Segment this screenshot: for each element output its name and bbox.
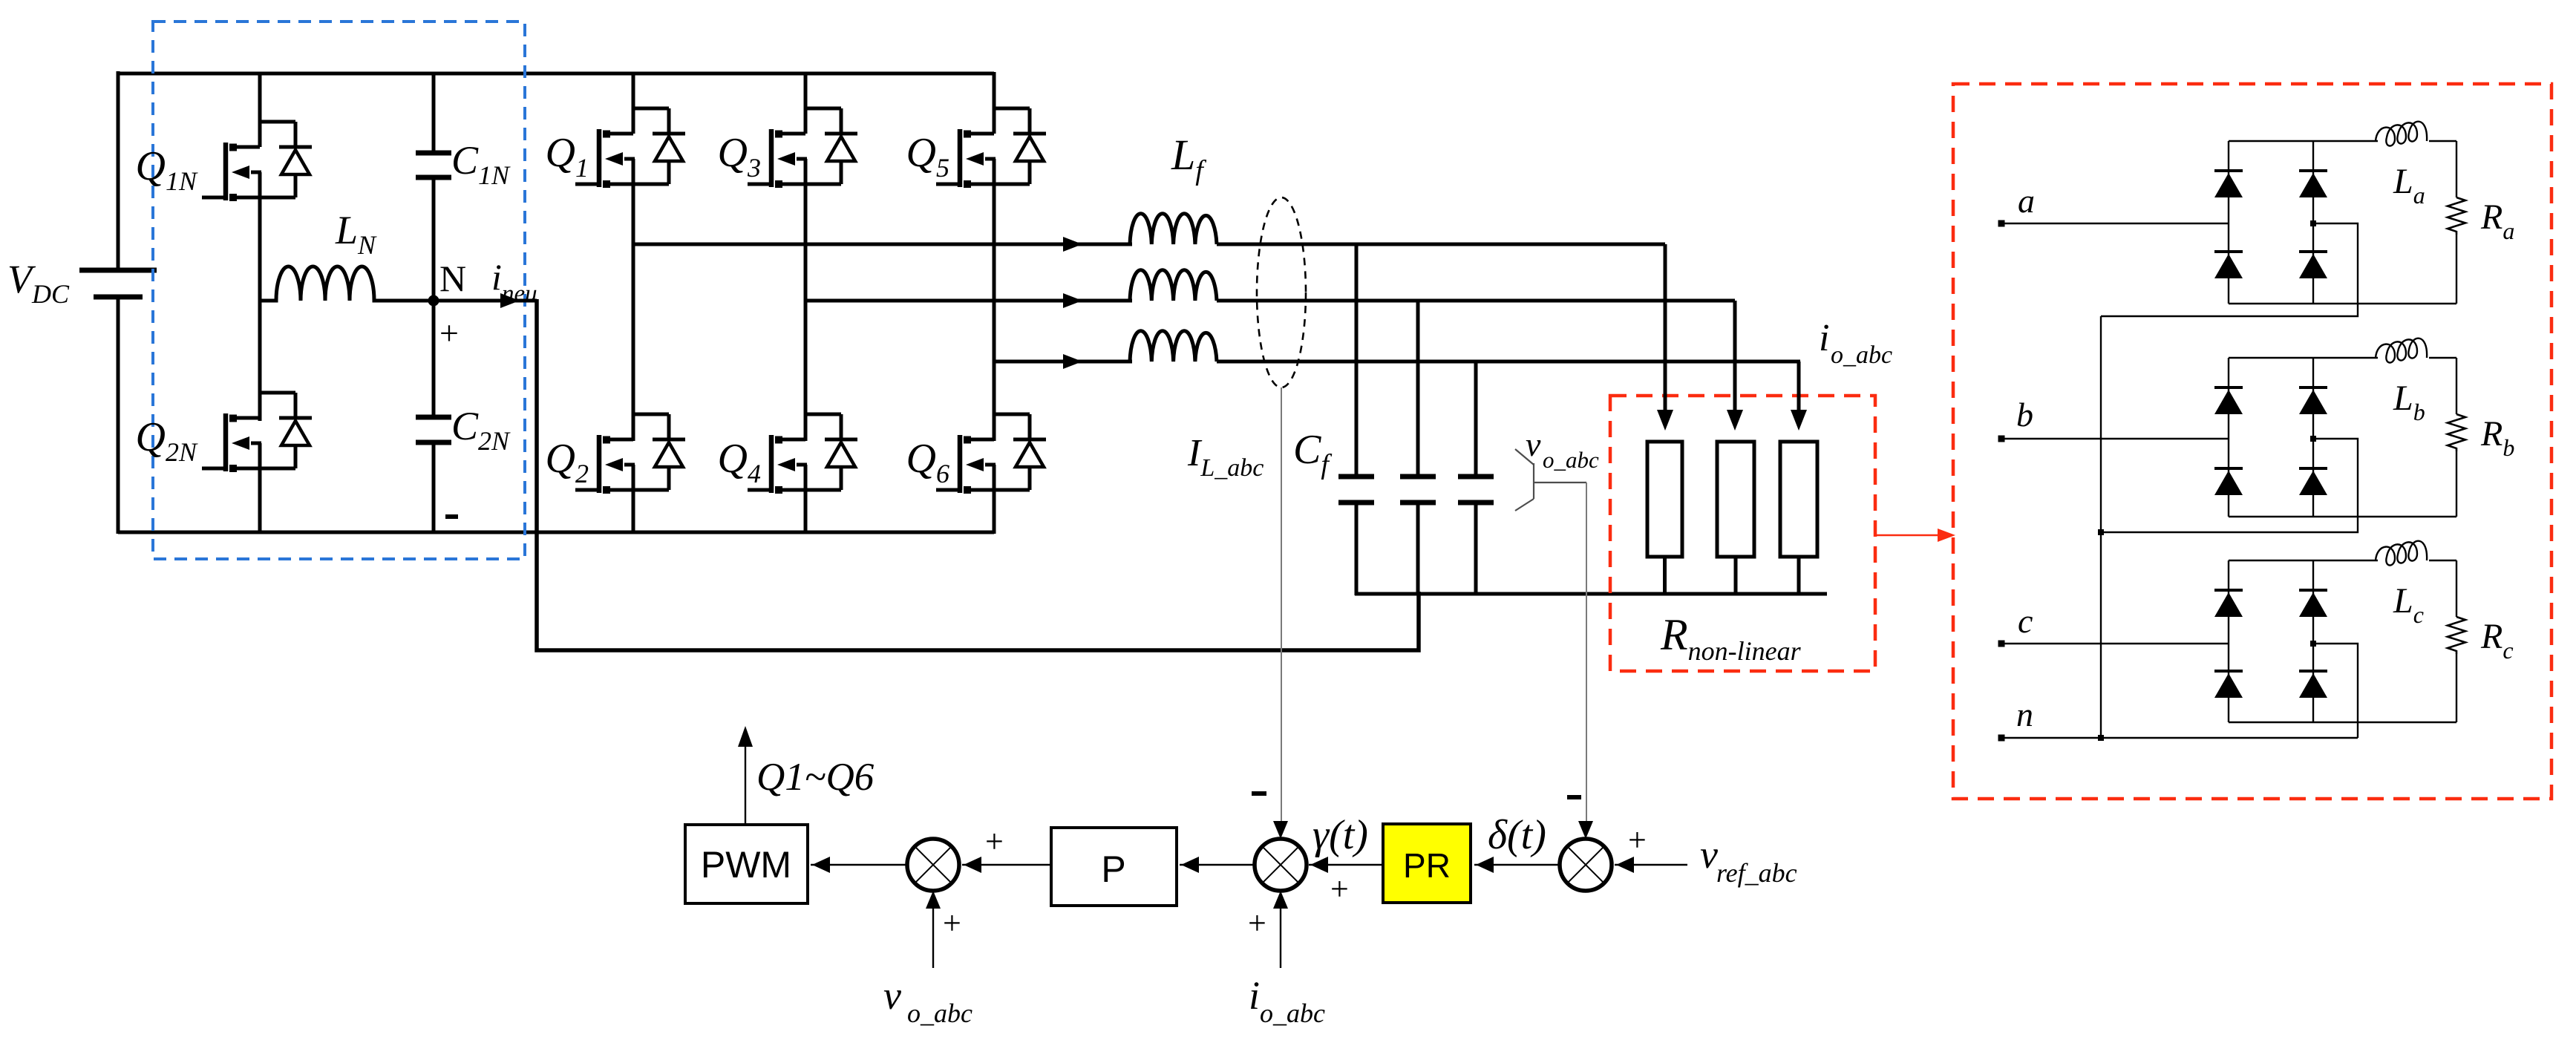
inductor LN xyxy=(260,266,434,301)
svg-text:v: v xyxy=(883,973,901,1018)
svg-text:o_abc: o_abc xyxy=(1260,998,1325,1028)
wire Rb to bottom xyxy=(2456,451,2457,517)
capacitor C2N xyxy=(432,304,436,417)
arrow IL_abc into S2 xyxy=(1273,821,1288,839)
svg-text:b: b xyxy=(2016,396,2033,434)
wire left rail upper xyxy=(117,71,120,270)
wire leg middle x=1085 xyxy=(804,184,808,441)
svg-text:o_abc: o_abc xyxy=(1543,447,1599,473)
wire phase B output xyxy=(805,299,1132,303)
wire load drop a with arrow xyxy=(1664,244,1667,417)
wire vo_abc into S1 xyxy=(932,892,934,968)
wire Ra to bottom xyxy=(2456,235,2457,304)
node N xyxy=(428,295,439,307)
wire fourth-leg midpoint xyxy=(258,196,262,421)
svg-text:ref_abc: ref_abc xyxy=(1716,858,1797,888)
DC source V_DC xyxy=(79,268,157,273)
summer S3 xyxy=(1560,839,1612,891)
wire leg source to bottom x=1085 xyxy=(804,488,808,534)
wire Rc to bottom xyxy=(2456,654,2457,722)
inductor Lb xyxy=(2376,338,2456,363)
blue dashed box fourth leg xyxy=(153,22,525,559)
red dashed box R_non-linear xyxy=(1610,396,1875,671)
transistor Q2N xyxy=(202,391,312,472)
red dashed load box xyxy=(1953,84,2552,799)
node bridge b ac2 xyxy=(2310,436,2316,442)
sense line IL_abc to controller xyxy=(1281,387,1282,822)
diode D1c xyxy=(2214,589,2243,592)
wire Lb to Rb xyxy=(2456,358,2457,414)
red equivalence arrow xyxy=(1875,534,1941,536)
svg-text:δ(t): δ(t) xyxy=(1488,812,1546,858)
capacitor Cf phase a xyxy=(1355,244,1359,477)
block PWM xyxy=(685,825,808,903)
wire bottom DC rail xyxy=(118,531,994,534)
diode D3a xyxy=(2214,250,2243,253)
resistor nonlinear b xyxy=(1717,442,1754,557)
svg-text:+: + xyxy=(1248,905,1266,941)
wire input b xyxy=(2001,438,2229,439)
diode D4a xyxy=(2299,250,2327,253)
inductor Lf phase B xyxy=(1130,270,1217,301)
svg-text:Q1~Q6: Q1~Q6 xyxy=(756,756,875,799)
svg-text:P: P xyxy=(1101,848,1125,890)
wire left rail lower xyxy=(117,297,120,534)
diode D2c xyxy=(2299,589,2327,592)
current sensor ellipse xyxy=(1257,197,1306,387)
svg-text:o_abc: o_abc xyxy=(1831,341,1892,369)
arrow PWM output Q1~Q6 xyxy=(745,745,746,825)
wire input n xyxy=(2001,737,2358,739)
svg-text:neu: neu xyxy=(502,281,537,307)
svg-text:i: i xyxy=(1249,973,1260,1018)
inductor La xyxy=(2376,122,2456,146)
wire leg source to bottom x=853 xyxy=(632,488,635,534)
summer S1 xyxy=(907,839,959,891)
wire bridge a return xyxy=(2101,223,2358,316)
diode D3b xyxy=(2214,467,2243,470)
wire i_neu with arrow xyxy=(434,299,537,303)
capacitor C1N xyxy=(432,72,436,153)
wire phase C to load xyxy=(1217,360,1800,364)
wire Q1N drain feed xyxy=(258,72,262,123)
wire neutral bus vertical xyxy=(2100,316,2102,738)
svg-text:PR: PR xyxy=(1403,846,1451,885)
resistor Ra xyxy=(2448,197,2465,235)
diode D2a xyxy=(2299,169,2327,172)
label minus S2 xyxy=(1252,791,1266,796)
svg-text:i: i xyxy=(491,256,502,298)
wire phase C output xyxy=(994,360,1132,364)
diode D2b xyxy=(2299,386,2327,389)
wire Q2N source to bottom rail xyxy=(258,467,262,534)
diode D1a xyxy=(2214,169,2243,172)
svg-text:c: c xyxy=(2018,602,2033,640)
svg-text:γ(t): γ(t) xyxy=(1312,812,1368,858)
summer S2 xyxy=(1255,839,1307,891)
sense line vo_abc to controller xyxy=(1586,482,1587,822)
inductor Lc xyxy=(2376,541,2456,566)
wire leg feed x=853 xyxy=(632,72,635,110)
wire phase A to load xyxy=(1217,243,1665,246)
wire input a xyxy=(2001,223,2229,224)
wire load drop c with arrow xyxy=(1797,362,1801,417)
svg-text:+: + xyxy=(985,823,1004,860)
wire leg feed x=1085 xyxy=(804,72,808,110)
label minus S3 xyxy=(1567,795,1581,799)
transistor Q5 xyxy=(936,107,1046,188)
wire io_abc into S2 xyxy=(1280,892,1281,968)
wire S1 to PWM xyxy=(811,864,907,866)
node bridge a ac2 xyxy=(2310,220,2316,226)
wire capacitor common rail xyxy=(1355,592,1827,596)
voltage probe vo_abc xyxy=(1515,449,1586,511)
wire neutral return xyxy=(537,299,1419,650)
capacitor Cf phase c xyxy=(1474,362,1478,477)
inductor Lf phase A xyxy=(1130,214,1217,244)
wire phase A output xyxy=(633,243,1132,246)
svg-text:PWM: PWM xyxy=(701,844,791,886)
svg-text:+: + xyxy=(1330,871,1349,907)
wire La to Ra xyxy=(2456,141,2457,197)
transistor Q6 xyxy=(936,413,1046,494)
resistor Rc xyxy=(2448,617,2465,654)
wire leg source to bottom x=1339 xyxy=(993,488,996,534)
resistor nonlinear c xyxy=(1780,442,1817,557)
wire leg middle x=1339 xyxy=(993,184,996,441)
diode bridge phase b xyxy=(2228,358,2229,517)
wire PR to S2 xyxy=(1309,864,1383,866)
wire input c xyxy=(2001,643,2229,644)
wire leg feed x=1339 xyxy=(993,72,996,110)
svg-text:o_abc: o_abc xyxy=(907,998,972,1028)
minus label of neutral caps xyxy=(445,514,458,519)
svg-text:+: + xyxy=(943,905,961,941)
svg-text:i: i xyxy=(1819,317,1829,359)
resistor Rb xyxy=(2448,414,2465,451)
arrow vo_abc into S3 xyxy=(1578,821,1593,839)
wire phase B to load xyxy=(1217,299,1735,303)
diode bridge phase c xyxy=(2228,560,2229,722)
diode D3c xyxy=(2214,670,2243,673)
svg-text:+: + xyxy=(439,314,459,352)
block PR xyxy=(1383,824,1471,903)
wire P to S1 xyxy=(962,864,1051,866)
transistor Q4 xyxy=(748,413,857,494)
transistor Q3 xyxy=(748,107,857,188)
diode bridge phase a xyxy=(2228,141,2229,304)
wire Lc to Rc xyxy=(2456,560,2457,617)
wire top DC rail xyxy=(118,72,994,76)
wire leg middle x=853 xyxy=(632,184,635,441)
svg-text:N: N xyxy=(439,258,466,299)
block P xyxy=(1051,828,1177,906)
capacitor Cf phase b xyxy=(1416,301,1420,477)
svg-text:+: + xyxy=(1628,822,1647,858)
wire bridge b return xyxy=(2101,439,2358,532)
wire S3 to PR xyxy=(1474,864,1560,866)
wire load drop b with arrow xyxy=(1733,301,1737,417)
resistor nonlinear a xyxy=(1647,442,1682,557)
node bridge c ac2 xyxy=(2310,641,2316,647)
svg-text:v: v xyxy=(1526,425,1541,463)
inductor Lf phase C xyxy=(1130,331,1217,362)
transistor Q2 xyxy=(575,413,685,494)
transistor Q1N xyxy=(202,120,312,201)
diode D1b xyxy=(2214,386,2243,389)
diode D4c xyxy=(2299,670,2327,673)
transistor Q1 xyxy=(575,107,685,188)
svg-text:n: n xyxy=(2016,696,2033,733)
svg-text:a: a xyxy=(2018,182,2035,220)
wire bridge c return xyxy=(2313,644,2358,738)
wire vref into S3 xyxy=(1615,864,1687,866)
svg-text:v: v xyxy=(1700,832,1718,877)
diode D4b xyxy=(2299,467,2327,470)
wire S2 to P xyxy=(1180,864,1255,866)
